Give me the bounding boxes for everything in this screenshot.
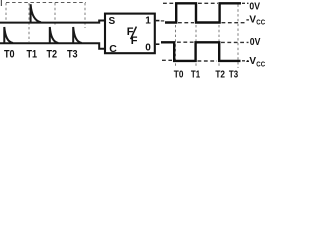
svg-text:T1: T1	[191, 68, 200, 79]
svg-text:0V: 0V	[250, 36, 261, 48]
svg-text:CC: CC	[256, 62, 265, 69]
svg-text:T0: T0	[174, 68, 184, 79]
svg-text:T2: T2	[215, 68, 225, 79]
svg-text:T1: T1	[27, 49, 38, 61]
svg-text:0V: 0V	[249, 1, 260, 13]
svg-text:CC: CC	[256, 19, 265, 26]
svg-text:T3: T3	[67, 49, 78, 61]
svg-text:T2: T2	[47, 49, 58, 61]
svg-text:0: 0	[145, 43, 151, 54]
svg-text:T0: T0	[4, 49, 15, 61]
svg-text:T3: T3	[229, 68, 238, 79]
svg-text:C: C	[109, 43, 117, 55]
svg-text:S: S	[109, 16, 116, 27]
svg-text:-V: -V	[246, 56, 256, 67]
svg-text:1: 1	[145, 15, 151, 26]
svg-text:-V: -V	[246, 14, 256, 25]
